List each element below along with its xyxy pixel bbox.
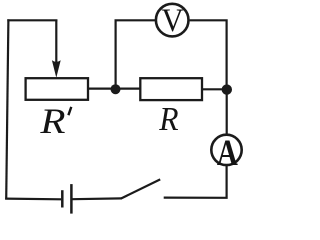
battery long plate — [70, 184, 73, 214]
svg-text:R: R — [158, 101, 178, 138]
wire R to right node — [202, 88, 224, 90]
svg-text:R: R — [39, 101, 65, 141]
wire node to R — [119, 87, 141, 89]
switch S1 blade — [121, 179, 160, 198]
voltmeter U1 circle — [156, 4, 189, 37]
battery short plate — [61, 190, 64, 207]
wire left rail vertical — [6, 19, 8, 199]
label R' prime mark — [68, 107, 71, 115]
wire ammeter to bottom-right corner — [164, 166, 227, 198]
node junction dot right — [222, 84, 232, 94]
resistor R box — [140, 78, 202, 100]
wire R' to node — [88, 87, 112, 89]
wire voltmeter branch — [116, 20, 156, 89]
wire top-left horizontal — [7, 19, 57, 21]
svg-text:V: V — [161, 3, 184, 39]
wire rheostat wiper stem — [55, 20, 57, 63]
svg-text:A: A — [217, 133, 238, 174]
node junction dot left — [111, 84, 121, 94]
wire right node to ammeter — [226, 93, 228, 134]
rheostat wiper arrowhead — [52, 60, 61, 78]
wire switch pivot to battery — [72, 197, 121, 200]
resistor R' box — [26, 78, 88, 100]
wire battery to bottom-left corner — [5, 198, 61, 201]
ammeter A1 circle — [211, 135, 241, 165]
wire voltmeter to right corner — [190, 20, 227, 86]
